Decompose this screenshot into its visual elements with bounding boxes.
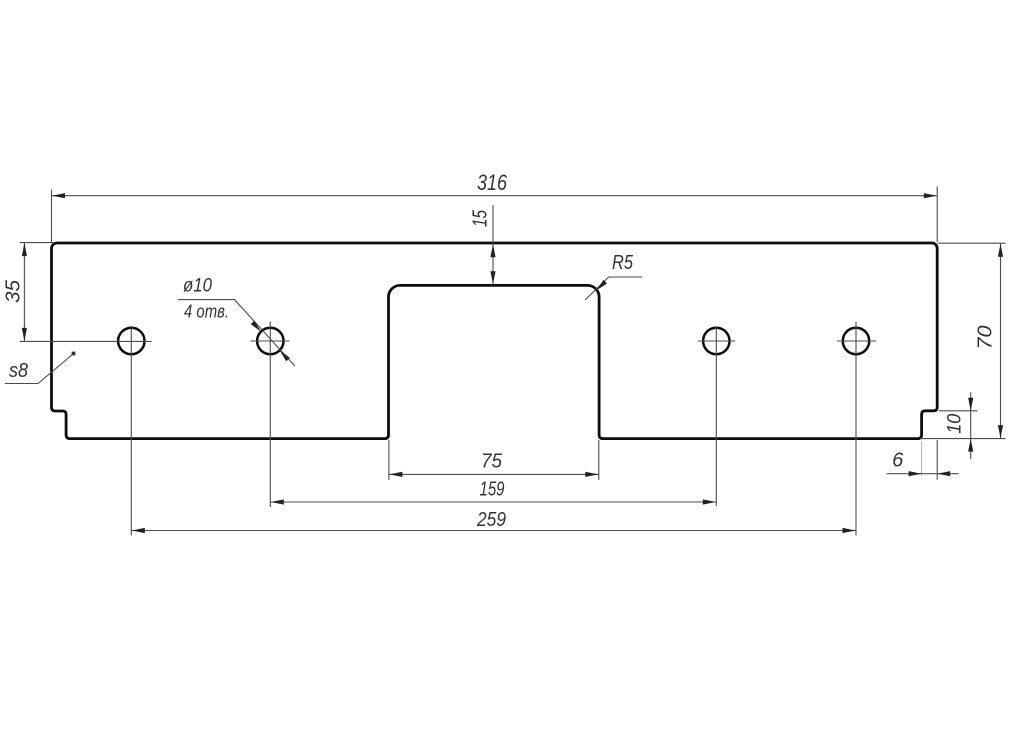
hole 4 horizontal centerline bbox=[837, 340, 876, 342]
hole 3 (diam 10) bbox=[703, 328, 729, 354]
svg-text:159: 159 bbox=[480, 478, 505, 501]
hole 3 vertical centerline extended to dim 159 bbox=[715, 327, 717, 506]
svg-text:4 отв.: 4 отв. bbox=[184, 302, 229, 322]
dim 75: right extension line bbox=[598, 440, 600, 480]
svg-text:15: 15 bbox=[469, 210, 492, 227]
dim 35: top extension line bbox=[20, 242, 53, 244]
dim 259: dimension line bbox=[131, 530, 856, 532]
hole 4 vertical centerline extended to dim 259 bbox=[855, 322, 857, 536]
leader s8 (sheet thickness) bbox=[5, 354, 73, 384]
dim 10: top extension line bbox=[939, 410, 978, 412]
hole 1 vertical centerline extended to dim 259 bbox=[130, 326, 132, 536]
hole 1 horizontal centerline / ext line for dim 35 bbox=[20, 340, 152, 342]
dim 6: left extension line (step edge) bbox=[921, 441, 923, 476]
svg-text:6: 6 bbox=[892, 450, 904, 472]
dim 159: dimension line bbox=[270, 501, 716, 503]
hole 4 (diam 10) bbox=[843, 328, 869, 354]
hole 2 (diam 10) bbox=[257, 328, 283, 354]
dim 316: right extension line bbox=[936, 187, 938, 243]
svg-text:35: 35 bbox=[2, 279, 25, 303]
leader diam 10, 4 holes bbox=[178, 300, 295, 366]
leader R5 (notch corner radius) bbox=[585, 277, 642, 300]
dim 70: top extension line bbox=[938, 242, 1006, 244]
plate outline with central notch and bottom corner steps bbox=[52, 243, 938, 439]
dim 10: dimension line with outside arrows bbox=[970, 392, 972, 459]
dim 6: right extension line bbox=[936, 440, 938, 480]
hole 2 vertical centerline extended to dim 159 bbox=[269, 322, 271, 508]
svg-text:259: 259 bbox=[476, 508, 506, 531]
hole 2 horizontal centerline bbox=[250, 340, 289, 342]
dim 316: dimension line bbox=[52, 195, 938, 197]
hole 3 horizontal centerline bbox=[698, 340, 735, 342]
dim 70: bottom extension line bbox=[920, 438, 1006, 440]
dim 75: left extension line bbox=[388, 440, 390, 480]
svg-text:75: 75 bbox=[481, 450, 503, 473]
svg-text:316: 316 bbox=[477, 170, 508, 195]
svg-text:70: 70 bbox=[974, 325, 997, 350]
hole 1 (diam 10) bbox=[118, 328, 144, 354]
dim 75: dimension line bbox=[389, 473, 599, 475]
dim 15: dimension line bbox=[492, 205, 494, 285]
dim 35: dimension line bbox=[23, 243, 25, 342]
dim 70: dimension line bbox=[1000, 243, 1002, 438]
svg-text:s8: s8 bbox=[9, 360, 28, 382]
svg-text:R5: R5 bbox=[612, 252, 634, 274]
dim 316: left extension line bbox=[51, 190, 53, 243]
dim 6: dimension line with outside arrows bbox=[887, 473, 959, 475]
svg-text:ø10: ø10 bbox=[183, 275, 212, 297]
svg-text:10: 10 bbox=[943, 414, 965, 434]
